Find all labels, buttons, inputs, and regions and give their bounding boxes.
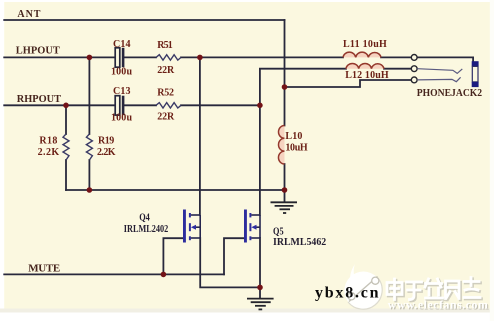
phonejack ring contact	[417, 77, 460, 81]
wire R52 to junction	[181, 104, 260, 106]
svg-text:LHPOUT: LHPOUT	[16, 44, 61, 56]
wire ANT horizontal	[4, 19, 284, 21]
wire ground stub upper	[284, 190, 286, 202]
svg-text:22R: 22R	[157, 65, 175, 76]
svg-text:L12 10uH: L12 10uH	[345, 70, 389, 81]
svg-text:10uH: 10uH	[285, 143, 308, 154]
wire tee to phonejack sleeve	[285, 80, 412, 87]
wire R19 bottom to rail	[88, 160, 90, 190]
svg-text:Q4: Q4	[139, 213, 150, 224]
wire L11 to jack pin1	[381, 56, 411, 58]
svg-text:22R: 22R	[157, 111, 175, 122]
capacitor C14	[111, 39, 132, 78]
resistor R18	[38, 134, 69, 160]
inductor L10	[278, 126, 307, 165]
connector PHONEJACK2 pin 2	[411, 66, 417, 72]
svg-text:PHONEJACK2: PHONEJACK2	[417, 88, 482, 99]
phonejack tip contact	[417, 69, 462, 74]
ground (upper, below L10)	[271, 202, 298, 213]
inductor L12	[345, 63, 389, 81]
wire riser RHPOUT junction up to L12	[260, 69, 346, 106]
watermark logo disc	[344, 264, 382, 310]
svg-text:100u: 100u	[111, 67, 132, 78]
inductor L11	[343, 39, 387, 57]
wire Q4 gate riser	[163, 238, 183, 274]
wire RHPOUT to C13	[4, 104, 115, 106]
svg-text:L11 10uH: L11 10uH	[343, 39, 387, 50]
phonejack plug body	[472, 61, 479, 87]
connector PHONEJACK2 pin 3	[411, 77, 417, 83]
resistor R52	[156, 88, 181, 123]
resistor R51	[156, 40, 181, 76]
junction node dots	[63, 55, 287, 291]
svg-text:C13: C13	[113, 86, 131, 97]
wire C14 to R51	[124, 56, 156, 58]
svg-text:MUTE: MUTE	[28, 263, 60, 275]
wire R18 bottom to rail	[65, 160, 67, 190]
wire ground stub lower	[259, 287, 261, 297]
wire L10 bottom to ground rail	[284, 164, 286, 190]
svg-text:R51: R51	[157, 40, 173, 51]
wire LHPOUT to C14	[4, 56, 115, 58]
wire R51 to L11	[181, 56, 343, 58]
wire L12 to jack pin2	[384, 68, 411, 70]
svg-text:R19: R19	[98, 136, 114, 147]
svg-text:www.elecfans.com: www.elecfans.com	[388, 298, 488, 312]
capacitor C13	[111, 86, 132, 124]
wire Q5 gate riser	[224, 238, 244, 274]
svg-text:L10: L10	[285, 131, 302, 142]
svg-text:2.2K: 2.2K	[38, 147, 60, 158]
resistor R19	[86, 134, 115, 160]
wire C13 to R52	[124, 104, 156, 106]
svg-text:ANT: ANT	[17, 9, 40, 20]
wire jack pin1 to plug body	[417, 57, 473, 60]
svg-text:100u: 100u	[111, 113, 132, 124]
wire LHPOUT junction down to Q4 drain	[199, 57, 201, 215]
transistor Q5	[244, 210, 326, 249]
wire RHPOUT junction down to Q5 drain	[259, 105, 261, 215]
wire node ANT to L10 top	[284, 87, 286, 126]
wire ANT vertical drop	[284, 20, 286, 87]
svg-text:C14: C14	[113, 39, 131, 50]
svg-text:IRLML5462: IRLML5462	[273, 237, 326, 248]
svg-text:R52: R52	[157, 88, 174, 99]
wire Q4 source down and across	[200, 238, 260, 287]
watermark chinese glyphs	[388, 279, 481, 301]
wire R18 branch from RHPOUT	[65, 105, 67, 134]
wire MUTE horizontal	[4, 273, 224, 275]
ground (lower, at Q4/Q5 sources)	[247, 299, 274, 310]
wire R19 branch from LHPOUT	[88, 57, 90, 134]
connector PHONEJACK2 pin 1	[411, 55, 417, 61]
svg-text:R18: R18	[39, 136, 57, 147]
transistor Q4	[124, 210, 200, 243]
svg-text:2.2K: 2.2K	[97, 147, 116, 158]
svg-text:IRLML2402: IRLML2402	[124, 224, 169, 235]
svg-text:Q5: Q5	[273, 226, 284, 237]
wire Q5 source down to ground node	[259, 238, 261, 287]
svg-text:ybx8.cn: ybx8.cn	[315, 285, 379, 302]
svg-text:RHPOUT: RHPOUT	[17, 93, 62, 105]
wire resistor bottom rail	[66, 189, 285, 191]
